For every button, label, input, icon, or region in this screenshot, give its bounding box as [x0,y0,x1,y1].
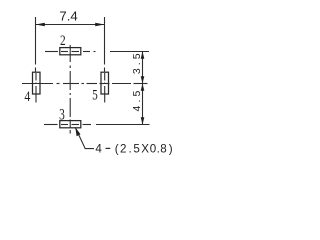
pad 5 [101,72,109,94]
arrow dim3.5 bottom [141,76,145,83]
pad 2 [60,48,81,55]
svg-text:7.4: 7.4 [59,9,77,24]
arrow dim7.4 left [36,23,45,27]
arrow dim4.5 bottom [141,117,145,124]
svg-text:4: 4 [24,88,30,104]
arrow leader [75,127,80,136]
arrow dim7.4 right [95,23,104,27]
svg-text:2: 2 [60,31,66,48]
wire centerline pads 2-3 vertical [69,45,71,62]
pad 4 [33,72,41,94]
wire leader line to pad 3 [75,128,94,149]
svg-text:5: 5 [92,86,98,103]
wire centerline pad 2 horizontal [45,51,58,53]
arrow dim3.5 top [141,52,145,59]
wire centerline pads 4-5 horizontal [22,83,53,85]
wire hyphen stroke in note [106,147,111,149]
svg-text:4.5: 4.5 [131,88,143,112]
svg-text:3.5: 3.5 [131,50,143,74]
wire centerline pad 3 horizontal [44,124,58,126]
wire extension line right (pad5 centerline vertical) [104,17,106,65]
arrow dim4.5 top [141,84,145,91]
wire dimension line 7.4 horizontal [36,24,105,26]
pad 3 [60,121,81,128]
svg-text:3: 3 [59,106,65,123]
wire extension line left (pad4 centerline vertical) [35,17,37,65]
wire dimension line 3.5 / 4.5 vertical [142,52,144,125]
